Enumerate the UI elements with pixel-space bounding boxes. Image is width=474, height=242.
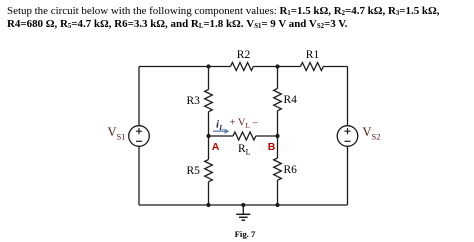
wire: left-middle branch, R3 to node A [208,112,210,136]
wire top-middle: R2 to R1 [253,66,300,68]
node: junction bottom of left-middle branch [206,203,210,207]
wire: right-middle branch, top segment to R4 [277,67,279,89]
resistor R4 (zigzag, vertical) [274,89,282,111]
svg-text:iL: iL [216,119,224,133]
wire left edge lower (VS1 to bottom-left corner) [138,146,140,205]
svg-text:VS2: VS2 [363,125,381,142]
wire top-right: R1 to top-right corner [323,66,347,68]
wire: left-middle branch, top segment to R3 [208,67,210,90]
wire bottom [139,204,348,206]
node B junction dot [275,134,279,138]
svg-text:+ VL –: + VL – [230,118,259,131]
svg-text:Fig. 7: Fig. 7 [235,229,256,239]
node A junction dot [206,134,210,138]
svg-text:RL: RL [238,143,251,157]
wire right edge lower (VS2 to bottom-right corner) [347,146,349,205]
resistor R3 (zigzag, vertical) [205,90,213,112]
arrow of iL [213,129,229,134]
resistor R6 (zigzag, vertical) [274,158,282,180]
wire right edge upper (top-right corner to VS2) [347,67,349,126]
svg-text:R4: R4 [284,94,298,106]
wire: RL to node B [256,135,278,137]
svg-text:A: A [212,141,220,153]
svg-text:VS1: VS1 [108,125,126,142]
voltage source VS1 [129,126,150,147]
node: junction top of left-middle branch [206,64,210,68]
svg-text:R1: R1 [306,49,320,61]
wire: right-middle branch, R4 to node B [277,111,279,136]
wire: left-middle branch, node A to R5 [208,136,210,160]
svg-text:R5: R5 [187,165,201,177]
resistor R2 (zigzag, top wire) [231,63,254,71]
problem statement text [7,5,474,33]
wire: node A to RL [209,135,234,137]
resistor R5 (zigzag, vertical) [205,160,213,182]
svg-text:B: B [268,141,276,153]
wire: right-middle branch, node B to R6 [277,136,279,158]
node: junction bottom of right-middle branch [275,203,279,207]
svg-text:R2: R2 [237,49,251,61]
wire: left-middle branch, R5 to bottom [208,182,210,205]
svg-text:R3: R3 [187,95,201,107]
wire left edge upper (VS1 to top-left corner) [138,67,140,126]
resistor R1 (zigzag, top wire) [301,63,324,71]
ground [242,205,244,214]
voltage source VS2 [337,126,358,147]
resistor RL (zigzag, middle wire) [233,132,256,140]
node: ground junction dot [241,203,245,207]
wire top-left: top-left corner to R2 [139,66,231,68]
node: junction top of right-middle branch [275,64,279,68]
svg-text:R6: R6 [284,164,298,176]
wire: right-middle branch, R6 to bottom [277,180,279,205]
